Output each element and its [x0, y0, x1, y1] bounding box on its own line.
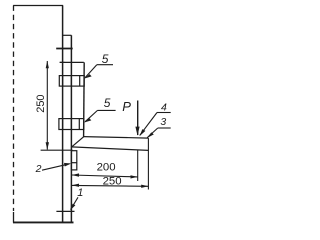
svg-text:2: 2 — [35, 163, 42, 175]
dim 200 right arrowhead — [131, 175, 138, 178]
label 1 leader arrowhead — [70, 204, 75, 210]
label 5a shelf — [97, 64, 113, 66]
label 5b leader — [85, 110, 98, 121]
bracket B1 clamp band outline — [59, 76, 84, 87]
label 1 leader — [71, 197, 78, 209]
arm top edge — [84, 137, 149, 139]
svg-text:5: 5 — [104, 96, 111, 110]
label 2 leader — [42, 164, 70, 170]
vertical dim down arrowhead — [46, 142, 49, 150]
svg-text:250: 250 — [103, 175, 122, 187]
rung tick A — [56, 48, 72, 50]
label 3 leader — [147, 128, 158, 138]
label 5a leader — [85, 65, 97, 78]
stand left edge / wall right edge — [62, 6, 64, 223]
force P line — [137, 101, 139, 136]
dim 250 right arrowhead — [141, 185, 148, 188]
svg-text:4: 4 — [161, 102, 167, 114]
force P arrowhead — [135, 127, 139, 136]
fitting box on stand — [71, 151, 76, 170]
bracket B1 clamp internal verticals — [63, 76, 80, 87]
fitting box divider — [71, 162, 76, 164]
bracket B2 clamp internal verticals — [63, 119, 80, 130]
top reference tick of vertical dimension — [60, 61, 65, 63]
svg-text:5: 5 — [102, 52, 109, 66]
floor line — [13, 221, 74, 223]
label 5b shelf — [98, 109, 116, 111]
stand right edge — [70, 35, 72, 222]
svg-text:1: 1 — [77, 187, 83, 199]
label 5a leader arrowhead — [84, 74, 91, 78]
vertical dim up arrowhead — [46, 61, 49, 69]
arm end vertical / 250 extension — [147, 138, 149, 189]
svg-text:250: 250 — [35, 94, 47, 112]
stand top cap — [63, 34, 72, 36]
label 3 shelf — [158, 127, 171, 129]
label 4 leader — [140, 113, 157, 136]
label 4 leader arrowhead — [139, 129, 145, 136]
label 5b leader arrowhead — [84, 118, 91, 122]
extension tick B — [41, 149, 73, 151]
dim 200 left arrowhead — [72, 173, 79, 176]
force P extension below arm — [137, 150, 139, 181]
ladder rail vertical — [83, 62, 86, 137]
vertical dimension line 250 — [46, 61, 48, 150]
svg-text:3: 3 — [160, 116, 166, 128]
bracket B2 clamp band outline — [59, 119, 84, 130]
dim 250 left arrowhead — [72, 184, 79, 187]
label 2 leader arrowhead — [64, 163, 71, 167]
wall left edge lower solid segment — [13, 212, 15, 223]
bracket B1 top plate — [60, 61, 84, 63]
arm bottom edge — [71, 147, 148, 151]
wall top edge — [13, 5, 63, 7]
label 4 shelf — [157, 112, 171, 114]
extension tick C — [56, 210, 74, 212]
svg-text:P: P — [122, 99, 131, 114]
dimension line 200 — [72, 175, 138, 177]
arm gusset diagonal — [72, 137, 84, 147]
dimension line 250 — [72, 184, 149, 187]
wall left edge (dashed) — [13, 6, 15, 212]
svg-text:200: 200 — [97, 162, 116, 174]
label 3 leader arrowhead — [147, 132, 154, 138]
